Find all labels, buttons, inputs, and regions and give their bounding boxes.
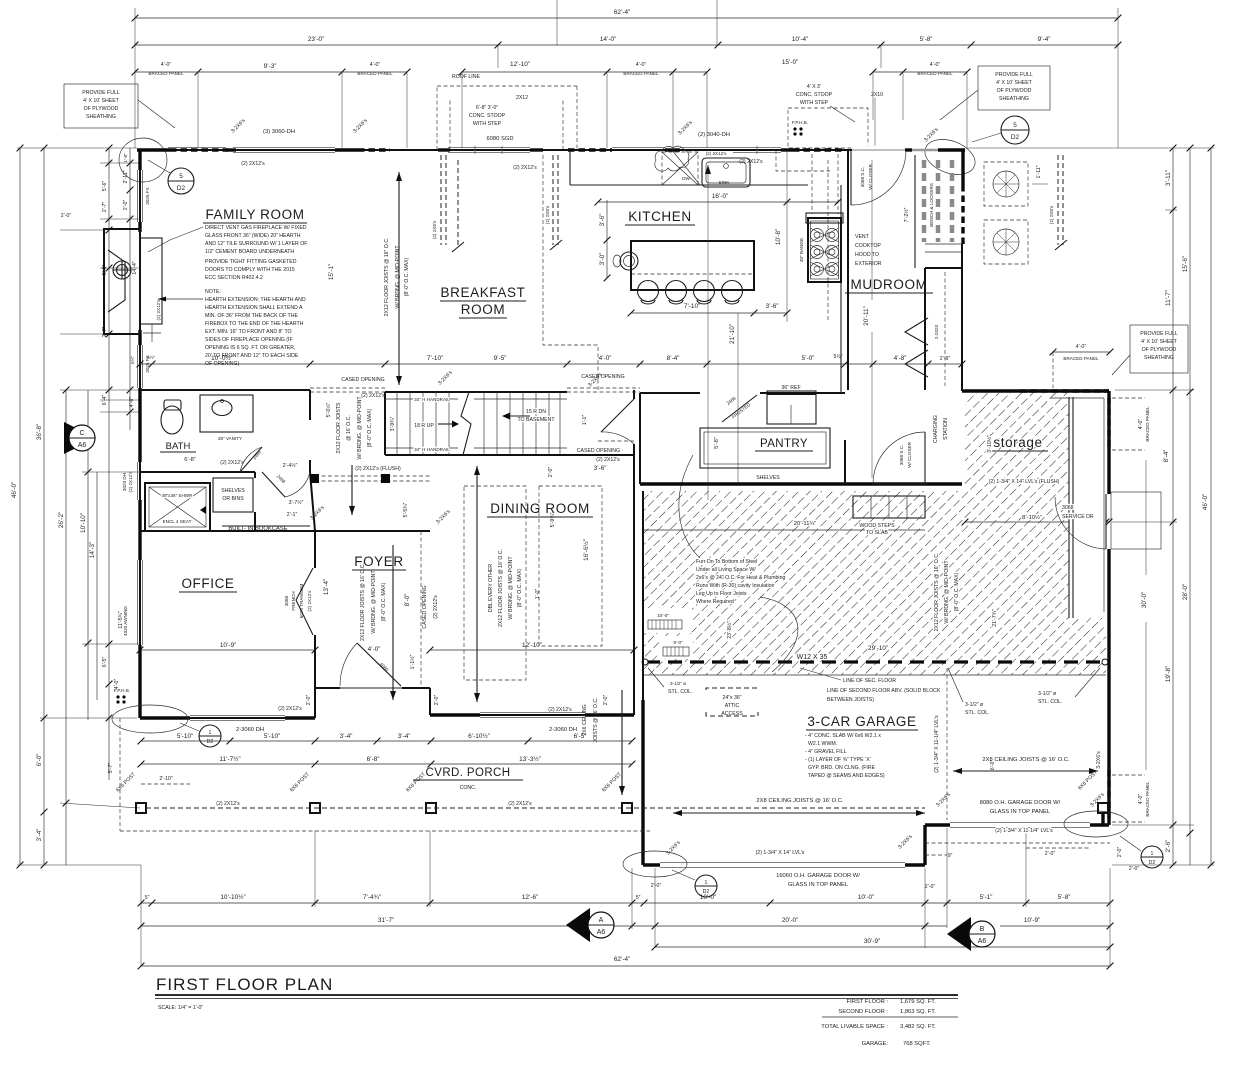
svg-text:46’-0”: 46’-0” [1202,494,1209,510]
svg-text:ROOM: ROOM [461,302,505,317]
svg-text:ECC SECTION R402.4.2: ECC SECTION R402.4.2 [205,275,263,281]
dim 8-10 storage [962,514,1110,525]
furr down note [679,455,798,672]
svg-text:5’-6”: 5’-6” [102,181,108,192]
svg-text:20’-11¼”: 20’-11¼” [794,521,817,527]
svg-text:15’-1”: 15’-1” [328,264,335,280]
svg-text:21’-10”: 21’-10” [729,324,736,344]
svg-text:BREAKFAST: BREAKFAST [441,285,526,300]
svg-text:1,863 SQ. FT.: 1,863 SQ. FT. [900,1009,936,1015]
svg-text:GLASS IN TOP PANEL: GLASS IN TOP PANEL [788,882,849,888]
svg-text:Where Required: Where Required [696,599,734,605]
frosted pantry door [722,395,757,422]
svg-text:4’ X 10’ SHEET: 4’ X 10’ SHEET [996,80,1032,86]
svg-text:5’-10”: 5’-10” [264,733,280,740]
section marker A/A6 [566,908,614,942]
svg-text:2X12 FLOOR JOISTS @ 16’ O.C.: 2X12 FLOOR JOISTS @ 16’ O.C. [498,549,504,627]
svg-text:CASED OPENING ·: CASED OPENING · [577,448,624,454]
svg-text:OPENING IS 6 SQ. FT. OR GREATE: OPENING IS 6 SQ. FT. OR GREATER, [205,345,295,351]
svg-text:4’-0”: 4’-0” [129,397,135,408]
braced panel dim above storage [1050,344,1114,388]
svg-text:SINK: SINK [719,180,731,185]
dim row y=362 across plan [137,353,966,367]
ceiling joist arrows [673,757,1098,816]
bench and lockers [903,160,962,252]
svg-text:BATH: BATH [166,441,191,452]
svg-text:2’-0”: 2’-0” [1117,847,1123,858]
svg-text:12’-6”: 12’-6” [522,894,538,901]
svg-text:3-1/2” ø: 3-1/2” ø [1038,691,1057,697]
joist labels in hatch [726,553,998,639]
office/foyer wall [314,531,316,568]
svg-text:10’-0½”: 10’-0½” [211,354,233,362]
svg-text:2’-0”: 2’-0” [603,695,609,706]
svg-text:- 4” GRAVEL FILL: - 4” GRAVEL FILL [805,749,847,755]
(2)2x12 flush header [220,460,430,483]
left dim 26-2 [58,387,69,865]
built-in bookcase [222,526,310,532]
room label 3-CAR GARAGE [806,714,918,730]
svg-text:3-1/2” ø: 3-1/2” ø [965,702,984,708]
svg-text:1: 1 [705,880,708,886]
svg-text:(2) 2X12’s: (2) 2X12’s [508,801,532,807]
svg-text:18 R UP: 18 R UP [414,423,434,429]
svg-text:W12 X 35: W12 X 35 [797,654,828,661]
svg-text:2’-6”: 2’-6” [1165,840,1172,853]
svg-text:ROOF LINE: ROOF LINE [452,74,480,80]
garage door labels [776,800,1061,888]
svg-text:A6: A6 [978,938,987,945]
svg-text:CVRD. PORCH: CVRD. PORCH [426,767,511,779]
front wall office [140,717,315,719]
svg-text:DW: DW [682,176,690,181]
svg-text:(2) 1-3/4” X 11-1/4” LVL’s: (2) 1-3/4” X 11-1/4” LVL’s [934,715,940,773]
svg-text:3-1/2” ø: 3-1/2” ø [670,681,686,686]
mudroom door [851,150,906,205]
garage notes [805,733,885,779]
svg-text:1’-0”: 1’-0” [535,589,541,600]
line of second floor note [800,668,941,703]
bottom dim row 4 : 62-4 [138,956,1114,969]
shelves or bins [213,478,253,512]
svg-text:(2) 1-3/4” X 14” LVL’s (FLUSH): (2) 1-3/4” X 14” LVL’s (FLUSH) [989,479,1060,485]
mudroom east wall [961,150,964,185]
svg-text:(8’-0” O.C. MAX): (8’-0” O.C. MAX) [517,568,523,607]
room label OFFICE [179,576,237,592]
svg-text:(2) 2X12’s: (2) 2X12’s [278,706,302,712]
closet bifold [905,318,939,377]
svg-text:6070 TRANSOM: 6070 TRANSOM [299,584,304,619]
dim 16-0 kitchen [595,193,842,205]
section marker B/A6 [947,917,995,951]
dining joist arrow + labels [474,466,523,702]
svg-text:GARAGE:: GARAGE: [862,1041,889,1047]
roof line dashed + conc stoop breakfast [437,74,577,150]
svg-text:SIDES OF FIREPLACE OPENING (IF: SIDES OF FIREPLACE OPENING (IF [205,337,293,343]
office joist arrow [360,545,396,700]
svg-text:29’-10”: 29’-10” [868,645,888,652]
svg-text:CONC.: CONC. [460,785,477,791]
svg-text:2X12 FLOOR JOISTS: 2X12 FLOOR JOISTS [336,402,342,454]
svg-text:9’-3”: 9’-3” [264,63,277,70]
svg-text:10’-0”: 10’-0” [657,613,669,618]
porch dim row 1 [138,732,636,744]
svg-text:FIRST FLOOR PLAN: FIRST FLOOR PLAN [156,975,333,994]
kitchen counter [570,184,808,186]
svg-text:PROVIDE FULL: PROVIDE FULL [82,90,120,96]
svg-text:62’-4”: 62’-4” [614,956,630,963]
svg-text:2X12 FLOOR JOISTS @ 16” O.C.: 2X12 FLOOR JOISTS @ 16” O.C. [384,238,390,317]
room label CVRD PORCH [413,767,523,791]
svg-text:6’-0”: 6’-0” [990,760,996,771]
svg-text:4’-0”: 4’-0” [1076,344,1087,350]
room label MUDROOM [845,277,933,293]
svg-text:NOTE:: NOTE: [205,289,221,295]
svg-text:4’-8”: 4’-8” [894,355,907,362]
svg-text:STL. COL.: STL. COL. [965,710,990,716]
svg-text:2’-0”: 2’-0” [306,695,312,706]
svg-text:PANTRY: PANTRY [760,438,808,450]
svg-text:3’-6”: 3’-6” [766,303,779,310]
dim chain 23-0 / 14-0 / 10-4 / 5-8 / 9-4 [132,36,1122,68]
svg-text:3068: 3068 [284,595,289,606]
svg-text:(2) 2X8’s: (2) 2X8’s [432,220,437,239]
svg-text:(2) 2X12’s: (2) 2X12’s [433,595,439,619]
svg-text:HEARTH EXTENSION SHALL EXTEND: HEARTH EXTENSION SHALL EXTEND A [205,305,303,311]
svg-text:PROVIDE FULL: PROVIDE FULL [1140,331,1178,337]
svg-text:TO BASEMENT: TO BASEMENT [517,417,555,423]
bottom dim row 2 [138,917,1114,929]
svg-text:23’-0”: 23’-0” [308,36,324,43]
svg-text:2’-1”: 2’-1” [287,512,298,518]
svg-text:13’-3½”: 13’-3½” [519,755,541,763]
note box plywood sheathing right [940,66,1050,120]
right chain column 2 [1182,145,1193,865]
svg-text:7’-10”: 7’-10” [427,355,443,362]
svg-text:(2) 2X12’s (FLUSH): (2) 2X12’s (FLUSH) [355,466,401,472]
svg-text:ENCL 4 SEAT: ENCL 4 SEAT [163,519,192,524]
svg-text:7’-4¾”: 7’-4¾” [363,894,381,901]
svg-text:(2) 1-3/4” X 11-1/4” LVL’s: (2) 1-3/4” X 11-1/4” LVL’s [995,828,1053,834]
stools [638,281,659,302]
svg-text:1,679 SQ. FT.: 1,679 SQ. FT. [900,999,936,1005]
svg-text:Runs With (R-30) cavity Insula: Runs With (R-30) cavity Insulation [696,583,775,589]
svg-text:EXTERIOR: EXTERIOR [855,261,882,267]
svg-text:(2) 2X8’s: (2) 2X8’s [545,205,550,224]
svg-text:16060 O.H. GARAGE DOOR W/: 16060 O.H. GARAGE DOOR W/ [776,873,860,879]
svg-text:STATION: STATION [943,418,949,440]
svg-text:D2: D2 [703,889,710,895]
svg-text:FIRST FLOOR :: FIRST FLOOR : [847,999,889,1005]
svg-text:CONC. STOOP: CONC. STOOP [796,92,833,98]
steel beam W12X35 dashed [642,645,1108,665]
svg-text:2X6 CEILING: 2X6 CEILING [582,704,588,735]
svg-text:(8’-0” O.C. MAX): (8’-0” O.C. MAX) [954,572,960,611]
svg-text:2’-0”: 2’-0” [651,883,662,889]
garage north wall [640,482,962,485]
svg-text:OF PLYWOOD: OF PLYWOOD [997,88,1032,94]
bottom extension lines [140,865,142,966]
svg-text:2’-11”: 2’-11” [123,170,129,183]
svg-text:8’-4”: 8’-4” [1163,450,1170,463]
svg-text:2’-0”: 2’-0” [548,467,554,478]
svg-text:10’-10½”: 10’-10½” [220,893,245,901]
pantry door arc [873,432,925,484]
svg-text:15’-0”: 15’-0” [782,59,798,66]
svg-text:Furr Dn To Bottom of Steel: Furr Dn To Bottom of Steel [696,559,757,565]
svg-text:W/ BRDNG. @ MID-POINT: W/ BRDNG. @ MID-POINT [357,396,363,460]
left small chain column [102,145,120,780]
svg-text:10’-0”: 10’-0” [858,894,874,901]
svg-text:F.P.H.B.: F.P.H.B. [792,120,808,125]
svg-text:5’-1”: 5’-1” [980,894,993,901]
svg-text:3,482 SQ. FT.: 3,482 SQ. FT. [900,1024,936,1030]
svg-text:48” RANGE: 48” RANGE [799,238,804,262]
svg-text:FAMILY ROOM: FAMILY ROOM [205,207,304,222]
svg-text:4’-0”: 4’-0” [636,62,647,68]
svg-text:2X12 FLOOR JOISTS @ 16’ O.C.: 2X12 FLOOR JOISTS @ 16’ O.C. [360,563,366,641]
svg-text:(2) 2X12’s: (2) 2X12’s [220,460,244,466]
svg-text:2X12 FLOOR JOISTS @ 16” O.C.: 2X12 FLOOR JOISTS @ 16” O.C. [934,553,940,632]
svg-text:3-2X6’s: 3-2X6’s [1096,751,1102,769]
dim line 62'-4" overall top [132,0,1122,148]
svg-text:JOISTS @ 16’ O.C.: JOISTS @ 16’ O.C. [593,697,599,742]
svg-text:5’-10”: 5’-10” [177,733,193,740]
svg-text:OR BINS: OR BINS [222,496,244,502]
svg-text:5: 5 [179,173,183,180]
left connector lines [17,148,141,865]
svg-text:W2.1 WWM.: W2.1 WWM. [808,741,837,747]
svg-text:5’-7”: 5’-7” [108,763,114,774]
svg-text:W/ BRDNG. @ MID-POINT: W/ BRDNG. @ MID-POINT [508,556,514,620]
svg-text:5’-0”: 5’-0” [802,355,815,362]
porch posts [115,769,1108,825]
svg-text:SHEATHING: SHEATHING [86,114,116,120]
room label DINING ROOM [487,501,593,517]
svg-text:WOOD STEPS: WOOD STEPS [859,523,895,529]
svg-text:SERVICE DR: SERVICE DR [1062,514,1094,520]
svg-text:2’-7”: 2’-7” [102,202,108,213]
svg-text:B: B [980,926,985,933]
svg-text:CONC. STOOP: CONC. STOOP [469,113,506,119]
svg-text:BRACED PANEL: BRACED PANEL [623,71,659,76]
svg-text:3026 FX: 3026 FX [145,187,150,204]
svg-text:ACCESS: ACCESS [721,711,743,717]
svg-text:5: 5 [1013,122,1017,129]
svg-text:6080 SGD: 6080 SGD [486,136,513,142]
svg-text:2’-0”: 2’-0” [61,213,72,219]
svg-text:(2) 2X12’s: (2) 2X12’s [548,707,572,713]
svg-text:D2: D2 [177,185,186,192]
room label FAMILY ROOM [203,207,307,223]
svg-text:5”: 5” [636,895,641,901]
svg-text:9’-4”: 9’-4” [1038,36,1051,43]
svg-text:GLASS FRONT 36” (WIDE) 20” HEA: GLASS FRONT 36” (WIDE) 20” HEARTH [205,233,301,239]
svg-text:20’-11”: 20’-11” [863,306,870,325]
svg-text:2X10: 2X10 [871,92,883,98]
svg-text:6’-8”: 6’-8” [184,457,196,463]
breakfast joist arrow [384,172,410,385]
svg-text:62’-4”: 62’-4” [614,9,630,16]
callout 5/D2 right [972,116,1029,144]
svg-text:2’-4½”: 2’-4½” [283,462,298,469]
svg-text:(2) 2X12’s: (2) 2X12’s [241,161,265,167]
FPHB left [114,688,130,704]
svg-text:1: 1 [1151,851,1154,857]
svg-text:19’-8”: 19’-8” [1165,666,1172,682]
svg-text:(2) 2X12’s: (2) 2X12’s [156,299,161,321]
svg-text:8080 O.H. GARAGE DOOR W/: 8080 O.H. GARAGE DOOR W/ [980,800,1061,806]
fireplace [104,229,162,342]
svg-text:WITH STEP: WITH STEP [800,100,829,106]
svg-text:2’-0”: 2’-0” [123,200,129,211]
svg-text:5’-9¾”: 5’-9¾” [550,512,556,527]
svg-text:TOTAL LIVABLE SPACE :: TOTAL LIVABLE SPACE : [821,1024,888,1030]
interior: family room south wall [140,389,310,391]
svg-text:2’-0”: 2’-0” [434,695,440,706]
svg-text:36” VANITY: 36” VANITY [218,436,242,441]
svg-text:3068 S.C.: 3068 S.C. [899,445,904,465]
svg-text:8’-4”: 8’-4” [667,355,680,362]
svg-text:Under all Living Space W/: Under all Living Space W/ [696,567,756,573]
svg-text:BETWEEN JOISTS): BETWEEN JOISTS) [827,697,874,703]
svg-text:F.P.H.B.: F.P.H.B. [114,688,130,693]
svg-text:PROVIDE TIGHT FITTING GASKETED: PROVIDE TIGHT FITTING GASKETED [205,259,297,265]
svg-text:DINING ROOM: DINING ROOM [490,501,590,516]
svg-text:W/ CLOSER: W/ CLOSER [907,441,912,467]
svg-text:3-CAR GARAGE: 3-CAR GARAGE [807,714,916,729]
svg-text:(2) 2X12’s: (2) 2X12’s [513,165,537,171]
svg-text:30’-9”: 30’-9” [864,938,880,945]
svg-text:(8’-0” O.C. MAX): (8’-0” O.C. MAX) [404,257,410,296]
fireplace note text [148,225,307,367]
french doors [284,568,313,635]
svg-text:6’-8” 3’-0”: 6’-8” 3’-0” [476,105,498,111]
foyer recess walls [314,688,316,718]
svg-text:10’-10”: 10’-10” [80,513,87,533]
svg-text:10’-9”: 10’-9” [220,642,236,649]
svg-text:A: A [599,917,604,924]
svg-text:Leg Up to Floor Joists: Leg Up to Floor Joists [696,591,747,597]
svg-text:GYP. BRD. ON CLNG. (FIRE: GYP. BRD. ON CLNG. (FIRE [808,765,876,771]
svg-text:W/ BRDNG. @ MID-POINT: W/ BRDNG. @ MID-POINT [371,570,377,634]
kitchen joist arrow [705,150,790,500]
right connectors [967,148,1214,865]
shower [145,483,210,531]
bath fixtures [160,395,253,463]
right chain 46-0 [1202,145,1214,869]
dishwasher + sink [662,151,750,187]
svg-text:14’-0”: 14’-0” [600,36,616,43]
svg-text:(2) 2X12’s: (2) 2X12’s [216,801,240,807]
svg-text:5½”: 5½” [147,354,155,360]
svg-text:W/ BRDNG. @ MID-POINT: W/ BRDNG. @ MID-POINT [395,245,401,309]
porch dim row 2 [138,755,636,767]
svg-text:6’-0”: 6’-0” [36,754,43,767]
svg-text:11’-7½”: 11’-7½” [219,755,240,763]
svg-text:12’-10”: 12’-10” [510,61,530,68]
svg-text:4’-0”: 4’-0” [599,355,612,362]
svg-text:46’-0”: 46’-0” [11,482,18,498]
svg-text:VENT: VENT [855,234,870,240]
svg-text:10’-8”: 10’-8” [775,229,782,245]
right chain column 1 [1163,145,1176,869]
svg-text:4’ X 10’ SHEET: 4’ X 10’ SHEET [1141,339,1177,345]
svg-text:DBL EVERY OTHER: DBL EVERY OTHER [488,564,494,613]
storage label [988,435,1048,451]
fridge [767,385,816,424]
svg-text:11’-5¾”: 11’-5¾” [118,611,124,628]
storage east nook (white) [1069,393,1106,618]
svg-text:KITCHEN: KITCHEN [628,209,691,224]
svg-text:9”: 9” [948,853,953,859]
hatched line-of-second-floor region [643,393,1106,675]
bottom dim row 1 [138,884,1114,906]
patio pavers [984,162,1048,264]
vent hood note [855,234,882,267]
svg-text:5½”: 5½” [129,356,135,364]
svg-text:OF PLYWOOD: OF PLYWOOD [1142,347,1177,353]
svg-text:16’-6½”: 16’-6½” [582,539,590,561]
svg-text:4’-0”: 4’-0” [1138,419,1144,430]
mini stair symbols dining [644,608,693,659]
pantry walls [639,393,641,484]
svg-text:5’-8”: 5’-8” [920,36,933,43]
area table [821,999,958,1047]
svg-text:FOYER: FOYER [354,554,404,569]
svg-text:5’-0½”: 5’-0½” [325,402,332,417]
left exterior wall [139,150,141,718]
bath door [240,447,262,472]
svg-text:5’-8”: 5’-8” [714,437,720,449]
svg-text:SHELVES: SHELVES [756,475,780,481]
bath walls [140,471,255,473]
svg-text:3’-9¾”: 3’-9¾” [390,416,396,431]
dining room dashed rugs [464,486,526,680]
svg-text:(2) 3040-DH: (2) 3040-DH [698,132,730,138]
porch slab dashed [120,830,650,832]
range [776,150,843,320]
svg-text:W/ BRDNG. @ MID-POINT: W/ BRDNG. @ MID-POINT [944,560,950,624]
svg-text:2’-0”: 2’-0” [1045,851,1056,857]
svg-text:5”: 5” [145,895,150,901]
left vertical dim 46'-0" [11,145,23,869]
svg-text:3’-6”: 3’-6” [599,214,606,227]
svg-text:14’-3”: 14’-3” [89,542,96,558]
conc stoop kitchen door [788,84,883,148]
svg-text:@ 16’ O.C.: @ 16’ O.C. [346,415,352,441]
svg-text:30’-0”: 30’-0” [1141,592,1148,608]
east garage wall [1107,391,1110,494]
svg-text:3’-4”: 3’-4” [398,733,411,740]
svg-text:2’-0”: 2’-0” [925,884,936,890]
svg-text:(2) 2X8’s: (2) 2X8’s [1049,205,1054,224]
svg-text:OFFICE: OFFICE [181,576,234,591]
svg-text:storage: storage [993,435,1042,450]
porch beams dashed [146,807,925,809]
basement door at dining NE [582,399,634,444]
svg-text:3’-7½”: 3’-7½” [289,499,304,506]
svg-text:11’-7”: 11’-7” [1165,290,1172,306]
garage front walls [643,863,660,866]
charging station [933,415,949,443]
svg-text:SCALE: 1/4” = 1’-0”: SCALE: 1/4” = 1’-0” [158,1005,203,1011]
svg-text:8’-0”: 8’-0” [404,594,411,607]
svg-text:16’-0”: 16’-0” [712,193,728,200]
svg-text:OF PLYWOOD: OF PLYWOOD [84,106,119,112]
svg-text:4’-0”: 4’-0” [370,62,381,68]
svg-text:(8’-0” O.C. MAX): (8’-0” O.C. MAX) [381,582,387,621]
